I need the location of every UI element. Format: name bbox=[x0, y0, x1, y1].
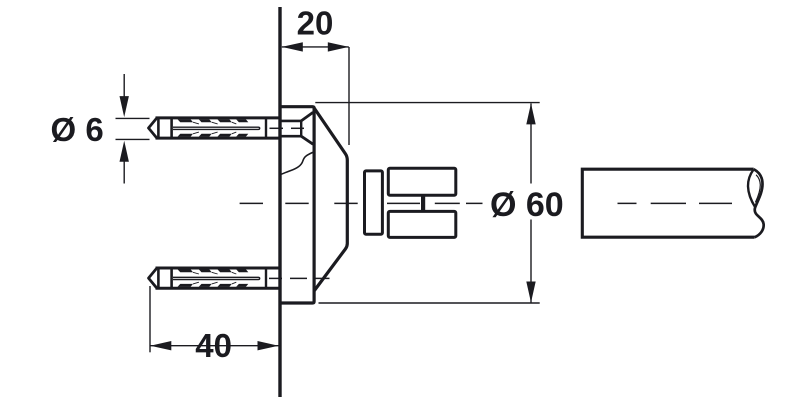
plug D1 collar line bbox=[170, 118, 173, 138]
dimension 40: extension line at plug tip bbox=[149, 286, 151, 352]
dimension 20: extension line at cone edge bbox=[348, 47, 350, 145]
tube (rod) body bbox=[582, 169, 754, 237]
tube broken-end silhouette curve bbox=[754, 169, 764, 237]
tube wall thickness inner arc bbox=[755, 175, 760, 203]
dimension 20: dimension line bbox=[282, 46, 349, 48]
tube centerline bbox=[618, 202, 733, 204]
dimension 40: left arrow bbox=[150, 341, 171, 350]
cutaway break line on cone bbox=[281, 152, 313, 174]
screw shank inside plug D1 bbox=[173, 127, 260, 129]
mounting plate (flange) bbox=[281, 107, 315, 303]
tube holder socket: left collar rect bbox=[365, 171, 383, 234]
dimension 20: right arrow bbox=[328, 42, 349, 51]
dimension Ø6: lower dimension line bbox=[123, 161, 125, 184]
centerline of top screw axis bbox=[270, 127, 305, 129]
dimension 40: right arrow bbox=[258, 341, 279, 350]
dimension Ø60: lower extension line bbox=[319, 302, 540, 304]
dimension Ø6: upper extension line bbox=[116, 117, 150, 119]
svg-text:Ø 6: Ø 6 bbox=[51, 111, 104, 148]
dimension 40: dimension line bbox=[150, 345, 278, 347]
svg-text:20: 20 bbox=[297, 5, 334, 42]
wall plug D2 (bottom dowel) bbox=[149, 268, 279, 288]
cone body of wall fitting bbox=[314, 108, 348, 291]
plug D1 expansion slits top row bbox=[178, 119, 249, 122]
dimension Ø60: lower arrow bbox=[526, 282, 535, 303]
plug D1 rim line at wall bbox=[265, 118, 267, 138]
slot gap line right bbox=[435, 202, 460, 204]
dimension Ø60: upper dimension line bbox=[530, 103, 532, 183]
plug D1 expansion slits bottom row bbox=[178, 134, 249, 137]
dimension Ø60: upper arrow bbox=[526, 103, 535, 124]
slot gap line left bbox=[387, 202, 420, 204]
countersunk head flare bottom bbox=[301, 136, 313, 144]
svg-text:Ø 60: Ø 60 bbox=[490, 186, 564, 224]
plug D1 slit tails bottom bbox=[193, 132, 236, 134]
tube holder socket: slot connector bar bbox=[421, 195, 425, 211]
centerline of bottom dowel axis bbox=[269, 277, 330, 279]
countersunk head flare top bbox=[301, 112, 313, 121]
dimension Ø60: lower dimension line bbox=[530, 220, 532, 303]
dimension Ø60: upper extension line bbox=[315, 102, 539, 104]
plug D1 slit tails top bbox=[193, 122, 236, 124]
countersink entry edge bbox=[300, 121, 302, 136]
svg-text:40: 40 bbox=[195, 327, 232, 364]
dimension Ø6: lower extension line bbox=[116, 138, 150, 140]
tube holder socket: lower jaw rect bbox=[388, 211, 456, 237]
dimension Ø6: lower arrow bbox=[120, 141, 129, 162]
tube holder socket: upper jaw rect bbox=[388, 168, 456, 195]
dimension 20: left arrow bbox=[282, 42, 303, 51]
wall plug D1 (top dowel) tip wedge bbox=[149, 118, 157, 138]
main horizontal centerline bbox=[240, 202, 483, 204]
plug D1 tip back edge bbox=[157, 118, 160, 138]
dimension Ø6: upper arrow bbox=[120, 96, 129, 117]
tube opening lens left arc bbox=[748, 170, 755, 208]
dimension Ø6: upper dimension line bbox=[123, 74, 125, 97]
plug D1 top/bottom outer edges bbox=[156, 116, 279, 119]
screw shank through wall bbox=[281, 121, 301, 136]
wall line bbox=[278, 7, 281, 397]
